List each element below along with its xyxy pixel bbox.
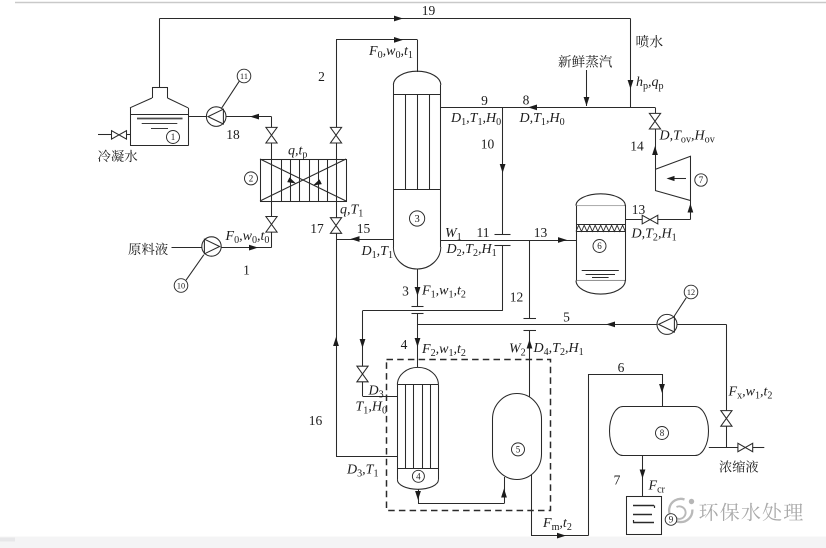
svg-text:5: 5 [563, 310, 570, 325]
svg-text:14: 14 [630, 139, 644, 154]
svg-text:17: 17 [310, 221, 324, 236]
svg-text:D1,T1,H0: D1,T1,H0 [450, 111, 501, 128]
svg-text:2: 2 [318, 69, 325, 84]
svg-text:D2,T2,H1: D2,T2,H1 [446, 242, 497, 259]
svg-text:1: 1 [243, 263, 250, 278]
svg-text:D4,T2,H1: D4,T2,H1 [533, 341, 584, 358]
svg-text:F2,w1,t2: F2,w1,t2 [421, 342, 466, 359]
svg-text:8: 8 [523, 93, 530, 108]
svg-text:F0,w0,t0: F0,w0,t0 [225, 229, 270, 246]
svg-text:15: 15 [357, 221, 371, 236]
svg-text:7: 7 [614, 473, 621, 488]
svg-text:19: 19 [422, 3, 436, 18]
svg-text:Fx,w1,t2: Fx,w1,t2 [728, 385, 773, 402]
svg-text:F0,w0,t1: F0,w0,t1 [368, 44, 413, 61]
svg-text:4: 4 [401, 337, 408, 352]
svg-text:2: 2 [249, 173, 254, 183]
svg-text:9: 9 [669, 515, 674, 525]
svg-text:16: 16 [309, 413, 323, 428]
svg-text:F1,w1,t2: F1,w1,t2 [421, 284, 466, 301]
svg-text:12: 12 [510, 290, 524, 305]
svg-text:10: 10 [481, 137, 495, 152]
svg-text:3: 3 [414, 214, 419, 225]
svg-text:3: 3 [402, 284, 409, 299]
svg-text:4: 4 [416, 471, 421, 481]
svg-text:13: 13 [534, 225, 548, 240]
svg-text:8: 8 [660, 428, 665, 438]
svg-text:10: 10 [177, 281, 185, 290]
svg-text:11: 11 [477, 225, 490, 240]
svg-text:6: 6 [618, 360, 625, 375]
svg-text:6: 6 [597, 241, 602, 251]
svg-text:9: 9 [481, 93, 488, 108]
svg-text:18: 18 [226, 127, 240, 142]
svg-text:7: 7 [699, 175, 704, 185]
svg-text:1: 1 [171, 132, 176, 142]
svg-text:12: 12 [687, 288, 695, 297]
svg-text:5: 5 [516, 444, 521, 454]
svg-text:11: 11 [240, 72, 248, 81]
svg-text:13: 13 [632, 202, 646, 217]
